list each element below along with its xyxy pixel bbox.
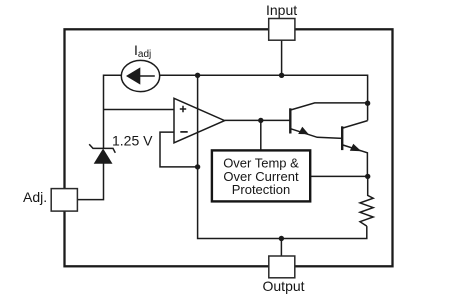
outer box (regulator IC boundary) xyxy=(65,29,393,266)
svg-text:Iadj: Iadj xyxy=(134,42,151,60)
protection block: Over Temp & Over Current Protection xyxy=(212,150,310,201)
svg-text:Adj.: Adj. xyxy=(23,189,47,205)
resistor (output sense resistor) xyxy=(360,176,373,226)
junction node: inverting input / feedback xyxy=(195,164,200,169)
wire: op-amp output junction down to protection box top xyxy=(260,120,262,150)
wire: Input pad drop to top rail xyxy=(281,40,283,75)
wire: op-amp + input from reference rail xyxy=(104,109,175,111)
wire: Output pad stem from bottom rail xyxy=(280,239,282,257)
Output pin pad xyxy=(269,256,295,278)
wire: zener anode down to Adj corner and left to Adj pad xyxy=(78,163,104,200)
junction node: top rail / input drop xyxy=(279,73,284,78)
Adj pin pad xyxy=(51,189,77,212)
junction node: top rail / feedback xyxy=(195,73,200,78)
Input pin pad xyxy=(269,19,295,41)
wire: protection box right to resistor junction xyxy=(310,175,368,177)
svg-text:Input: Input xyxy=(266,2,297,18)
current source I_adj xyxy=(121,60,159,91)
svg-text:Protection: Protection xyxy=(232,182,291,197)
wire: op-amp output to Q1 base xyxy=(225,119,290,121)
wire: current-source left lead and vertical reference rail xyxy=(104,75,122,148)
junction node: protection / resistor / Q2 emitter xyxy=(365,174,370,179)
svg-text:Output: Output xyxy=(263,278,305,294)
wire: feedback vertical from top rail through op-amp to bottom rail xyxy=(198,75,367,238)
transistor Q1 (driver NPN) xyxy=(290,103,367,138)
junction node: bottom rail / output stem xyxy=(279,236,284,241)
transistor Q2 (output NPN pass transistor) xyxy=(342,121,367,177)
op-amp U1 (error amplifier) xyxy=(174,98,225,143)
junction node: op-amp output / protection box xyxy=(258,118,263,123)
wire: op-amp inverting loop xyxy=(160,132,198,167)
svg-text:1.25 V: 1.25 V xyxy=(112,132,153,148)
zener diode (1.25 V reference) xyxy=(89,144,115,163)
wire: top rail from current source to right vertical xyxy=(160,75,368,120)
junction node: Q1 collector rail xyxy=(365,101,370,106)
